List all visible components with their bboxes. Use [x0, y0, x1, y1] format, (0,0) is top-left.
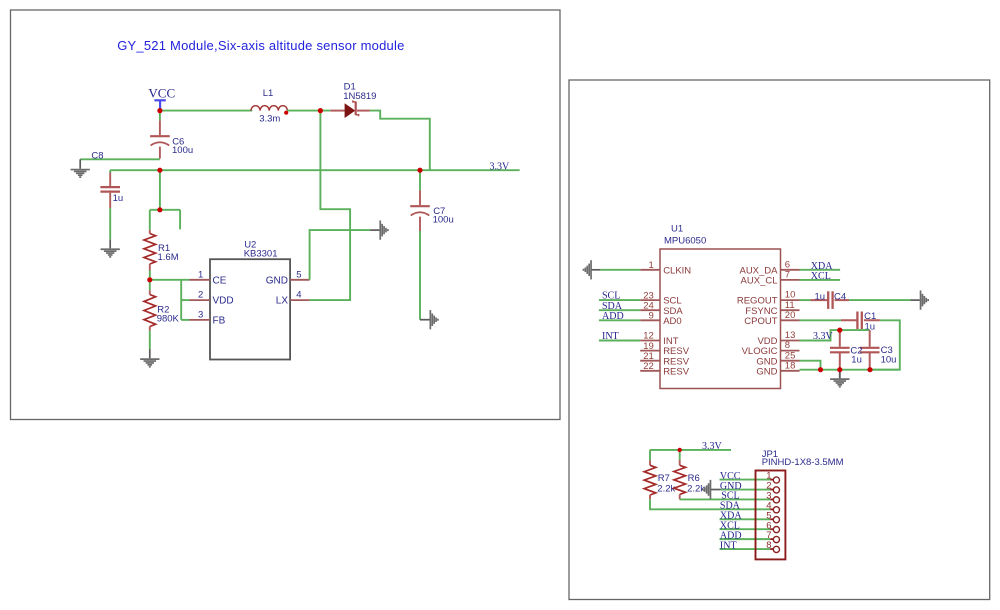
svg-text:20: 20: [785, 310, 796, 321]
svg-text:1.6M: 1.6M: [158, 252, 179, 263]
svg-text:GY_521 Module,Six-axis altitud: GY_521 Module,Six-axis altitude sensor m…: [117, 38, 404, 53]
svg-text:8: 8: [766, 540, 771, 551]
svg-text:ADD: ADD: [602, 311, 624, 322]
svg-text:C8: C8: [91, 150, 103, 161]
svg-text:1: 1: [649, 260, 654, 271]
svg-text:7: 7: [785, 270, 790, 281]
svg-text:LX: LX: [276, 296, 289, 307]
svg-text:CE: CE: [213, 275, 227, 286]
svg-text:INT: INT: [602, 331, 619, 342]
svg-text:KB3301: KB3301: [244, 248, 278, 259]
svg-text:4: 4: [296, 290, 301, 301]
svg-text:FB: FB: [213, 315, 226, 326]
svg-text:18: 18: [785, 360, 796, 371]
svg-text:CLKIN: CLKIN: [663, 265, 691, 276]
svg-text:100u: 100u: [433, 214, 454, 225]
svg-text:INT: INT: [720, 540, 737, 551]
svg-text:1u: 1u: [113, 193, 124, 204]
svg-text:VCC: VCC: [148, 85, 175, 100]
svg-text:3.3V: 3.3V: [702, 441, 723, 452]
svg-text:RESV: RESV: [663, 366, 690, 377]
svg-text:L1: L1: [263, 88, 274, 99]
svg-text:2: 2: [198, 290, 203, 301]
svg-text:3.3V: 3.3V: [813, 331, 834, 342]
svg-text:XCL: XCL: [811, 271, 831, 282]
svg-text:1u: 1u: [851, 355, 862, 366]
svg-text:3.3m: 3.3m: [259, 114, 280, 125]
svg-text:5: 5: [296, 269, 301, 280]
svg-text:2.2k: 2.2k: [657, 483, 675, 494]
svg-text:C4: C4: [834, 291, 846, 302]
svg-text:VDD: VDD: [213, 296, 234, 307]
svg-text:1: 1: [198, 269, 203, 280]
svg-text:10u: 10u: [881, 355, 897, 366]
svg-text:1N5819: 1N5819: [343, 91, 376, 102]
svg-text:980K: 980K: [157, 313, 180, 324]
svg-text:CPOUT: CPOUT: [744, 316, 777, 327]
svg-text:MPU6050: MPU6050: [664, 235, 706, 246]
svg-text:U1: U1: [671, 224, 683, 235]
svg-text:GND: GND: [756, 366, 777, 377]
svg-text:AD0: AD0: [663, 316, 681, 327]
svg-text:1u: 1u: [815, 291, 826, 302]
svg-text:GND: GND: [266, 275, 288, 286]
svg-text:3.3V: 3.3V: [490, 161, 511, 172]
svg-text:PINHD-1X8-3.5MM: PINHD-1X8-3.5MM: [762, 457, 844, 468]
svg-text:3: 3: [198, 310, 203, 321]
svg-text:9: 9: [649, 311, 654, 322]
svg-text:100u: 100u: [172, 145, 193, 156]
svg-text:AUX_CL: AUX_CL: [741, 276, 778, 287]
svg-text:22: 22: [643, 361, 654, 372]
